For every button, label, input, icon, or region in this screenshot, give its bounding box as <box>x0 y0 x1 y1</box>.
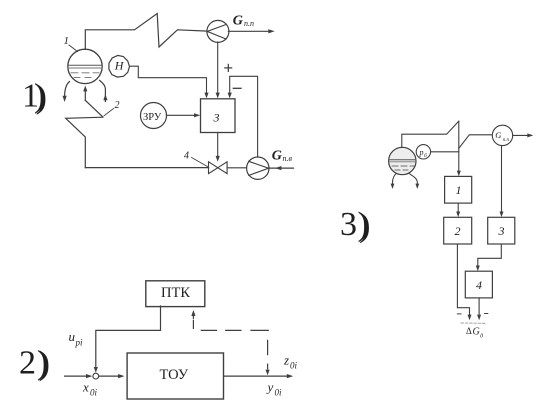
svg-text:u: u <box>69 329 76 344</box>
wire block3 to block4 <box>476 244 502 271</box>
svg-text:4: 4 <box>476 278 482 292</box>
svg-text:0i: 0i <box>90 388 98 398</box>
input wire x0i <box>65 374 125 378</box>
svg-text:д: д <box>480 333 483 340</box>
turbine vertical and branch to block 1 <box>457 121 461 176</box>
svg-text:ПТК: ПТК <box>161 285 190 301</box>
svg-text:б: б <box>424 152 427 159</box>
block 4 (diagram 3) <box>465 271 492 298</box>
block PTK <box>146 281 205 307</box>
svg-text:3: 3 <box>498 224 505 238</box>
svg-text:): ) <box>358 206 369 243</box>
drum (diagram 3) <box>389 147 416 174</box>
steam line from drum with break zigzag <box>85 14 207 50</box>
svg-text:ЗРУ: ЗРУ <box>143 112 162 123</box>
block 3 (diagram 3) <box>488 217 515 244</box>
svg-text:2: 2 <box>455 224 461 238</box>
svg-text:п.п: п.п <box>503 138 510 143</box>
label 1) <box>22 78 47 116</box>
wire G_pp to block 3 <box>500 146 504 218</box>
dashed feedback wire <box>201 330 269 375</box>
level sensor H <box>109 55 130 77</box>
wire steam out arrow <box>228 29 274 33</box>
svg-text:ТОУ: ТОУ <box>160 367 189 383</box>
svg-text:G: G <box>495 130 501 140</box>
wire p_b to branch <box>431 151 459 153</box>
minus sign left <box>457 313 461 315</box>
svg-text:): ) <box>34 78 45 115</box>
label y_0i <box>266 380 283 398</box>
block 1 (diagram 3) <box>445 176 472 203</box>
feedback wire G_pv to controller 3 <box>228 76 258 157</box>
plus sign <box>225 64 232 71</box>
steam line with turbine break (diagram 3) <box>402 121 459 147</box>
svg-text:x: x <box>82 380 89 395</box>
wire block1 to block2 <box>456 203 460 217</box>
svg-text:): ) <box>37 344 48 381</box>
pressure sensor p_b <box>416 145 430 159</box>
svg-text:G: G <box>272 149 282 164</box>
svg-text:п.в: п.в <box>283 154 293 163</box>
label 3) <box>340 206 370 244</box>
node circle <box>93 373 99 379</box>
wire block2 to output <box>457 244 471 320</box>
furnace break zigzag (bottom-left) <box>66 117 103 167</box>
feedwater line valve to sensor <box>227 167 247 169</box>
svg-text:y: y <box>266 380 274 395</box>
label x_0i <box>82 380 98 398</box>
label delta G_d <box>466 326 483 340</box>
label G_pp <box>233 13 254 28</box>
label u_pi <box>69 329 84 348</box>
wire feedback into PTK <box>191 310 195 328</box>
svg-text:п.п: п.п <box>244 19 254 28</box>
svg-text:0i: 0i <box>290 361 298 371</box>
flow sensor G_pp (diagram 3) <box>492 125 512 145</box>
label 2) <box>19 344 50 382</box>
svg-text:2: 2 <box>19 344 36 381</box>
svg-text:z: z <box>283 353 289 368</box>
summation line <box>461 322 486 324</box>
drum legs with arrows (diagram 3) <box>391 173 420 189</box>
svg-text:3: 3 <box>213 110 220 124</box>
svg-text:G: G <box>233 13 243 28</box>
label 1 on drum <box>64 35 78 52</box>
svg-text:1: 1 <box>64 35 70 47</box>
valve 4 <box>209 162 228 174</box>
feedwater line left <box>85 167 208 169</box>
wire H to controller 3 <box>130 66 209 98</box>
block TOU <box>127 353 223 399</box>
wire ZRU to controller 3 <box>167 113 201 117</box>
minus sign <box>233 87 241 89</box>
svg-text:Δ: Δ <box>466 326 472 336</box>
svg-text:1: 1 <box>456 183 462 197</box>
turbine exit diagonal <box>459 135 493 149</box>
setpoint unit ZRU <box>141 103 167 129</box>
svg-text:4: 4 <box>184 151 189 162</box>
riser right arrow <box>100 80 108 101</box>
wire controller 3 to valve <box>216 133 220 162</box>
drum 1 (boiler drum) <box>68 49 102 83</box>
downcomer left arrow <box>63 82 70 103</box>
output wire <box>224 374 293 378</box>
riser middle arrow <box>83 86 87 101</box>
label G_pv <box>272 149 293 164</box>
flow sensor G_pv (feedwater orifice) <box>247 157 269 179</box>
svg-text:G: G <box>473 327 480 338</box>
label 4 <box>184 151 208 167</box>
controller block 3 <box>201 99 236 133</box>
block 2 (diagram 3) <box>444 217 472 244</box>
svg-text:2: 2 <box>115 100 120 111</box>
steam out arrow (diagram 3) <box>513 133 534 137</box>
wire riser to furnace break <box>85 100 103 117</box>
label z_0i <box>283 353 298 371</box>
svg-text:p: p <box>419 148 424 157</box>
feedwater inlet arrow <box>269 166 294 170</box>
svg-text:0i: 0i <box>275 388 283 398</box>
wire G_pp sensor to controller 3 <box>216 42 220 98</box>
wire PTK to node (control signal) <box>94 306 161 373</box>
minus sign right <box>485 313 488 315</box>
flow sensor G_pp (steam flow orifice) <box>207 20 229 42</box>
svg-text:3: 3 <box>340 206 357 243</box>
svg-text:pi: pi <box>75 338 84 348</box>
label 2 <box>104 100 120 116</box>
svg-text:H: H <box>114 59 125 73</box>
wire block4 to output <box>477 298 481 320</box>
